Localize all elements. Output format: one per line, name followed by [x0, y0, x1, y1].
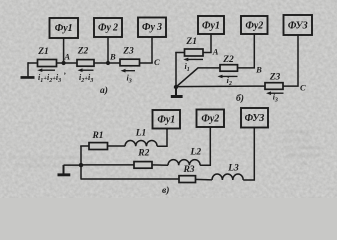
- current arrow i2 (b): [218, 75, 238, 79]
- node junction dot (b): [174, 85, 178, 89]
- wire L2 to FU2 (v): [200, 127, 210, 165]
- svg-text:A: A: [212, 47, 219, 57]
- impedance Z2 (a): [77, 60, 94, 67]
- ground (a): [21, 76, 35, 79]
- svg-text:C: C: [300, 83, 306, 93]
- wire L3 to FU3 (v): [243, 128, 254, 181]
- functional unit FU1 (v): [153, 110, 181, 129]
- wire bus segment B-Z3: [94, 62, 120, 64]
- svg-text:L3: L3: [227, 164, 239, 174]
- svg-text:Фу 3: Фу 3: [142, 22, 162, 33]
- svg-text:Фу1: Фу1: [157, 115, 175, 126]
- svg-text:Z2: Z2: [222, 55, 234, 65]
- impedance Z3 (a): [120, 59, 140, 66]
- bleed-through text right: [283, 128, 320, 167]
- wire Z3 to C corner (b): [283, 35, 298, 86]
- inductor L2: [168, 160, 200, 166]
- wire R3 to L3: [196, 178, 213, 181]
- functional unit FU1 (a): [50, 18, 79, 38]
- svg-text:вм: вм: [300, 160, 307, 167]
- svg-text:Фу2: Фу2: [201, 114, 219, 125]
- svg-text:ноя ыб вёам: ноя ыб вёам: [286, 152, 319, 159]
- functional unit FU2 (b): [241, 16, 268, 34]
- wire left drop to ground (a): [27, 62, 29, 76]
- functional unit FU1 (b): [198, 16, 224, 34]
- functional unit FU3 (b): [284, 15, 313, 35]
- wire bus segment A-B left: [57, 62, 78, 64]
- ground (b): [171, 87, 183, 98]
- svg-text:ФУЗ: ФУЗ: [245, 113, 265, 124]
- svg-text:R2: R2: [137, 149, 149, 159]
- wire branch1 left (v): [80, 145, 89, 147]
- current arrow i1 (b): [183, 58, 203, 62]
- svg-text:б): б): [236, 93, 244, 104]
- inductor L1: [125, 140, 157, 146]
- wire R1 to L1: [108, 145, 126, 147]
- node B junction dot: [106, 61, 110, 65]
- current arrow i2+i3: [78, 68, 94, 72]
- wire diagonal feeder to Z2 (b): [176, 68, 220, 87]
- wire bus segment Z3-C: [140, 62, 153, 64]
- svg-text:Z1: Z1: [185, 37, 197, 47]
- svg-text:L1: L1: [135, 129, 147, 139]
- current arrow i1+i2+i3: [37, 68, 55, 72]
- svg-text:ФУЗ: ФУЗ: [288, 21, 308, 32]
- svg-text:Фу1: Фу1: [55, 23, 73, 34]
- resistor R1: [89, 143, 108, 150]
- functional unit FU2 (v): [197, 110, 225, 128]
- svg-text:B: B: [255, 65, 262, 75]
- wire left vertical (v): [80, 146, 82, 180]
- functional unit FU3 (v): [241, 108, 268, 128]
- svg-text:A: A: [63, 52, 70, 62]
- current arrow i3 (b): [266, 91, 284, 95]
- wire branch3 left (v): [81, 178, 179, 180]
- svg-text:Z3: Z3: [269, 73, 281, 83]
- svg-text:R1: R1: [91, 131, 103, 141]
- ground (v): [58, 165, 82, 176]
- wire left vertical feeder (b): [175, 53, 177, 88]
- wire branch2 left (v): [81, 164, 134, 166]
- svg-text:Z1: Z1: [37, 47, 49, 57]
- bleed-through text left: [8, 154, 92, 169]
- node junction dot (v): [79, 163, 83, 167]
- wire FU1 (v) stub: [166, 129, 168, 131]
- wire R2 to L2: [152, 164, 168, 166]
- svg-text:в): в): [162, 185, 169, 196]
- svg-text:ние до черного приор на узме: ние до черного приор на узме: [8, 154, 90, 161]
- svg-text:Фу1: Фу1: [202, 21, 220, 32]
- wire bottom feeder to Z3 (b): [176, 85, 265, 88]
- wire FU3 (a) drop: [151, 37, 153, 63]
- resistor R2: [134, 162, 152, 169]
- svg-text:а): а): [100, 85, 108, 96]
- wire Z1 to A corner (b): [203, 34, 211, 53]
- svg-text:Z2: Z2: [77, 47, 89, 57]
- current arrow i3 (a): [121, 69, 136, 73]
- wire to Z1 (b): [175, 52, 184, 54]
- impedance Z2 (b): [220, 65, 238, 72]
- svg-text:вдت ыняемц: вдت ыняемц: [284, 144, 320, 151]
- resistor R3: [179, 176, 196, 183]
- svg-text:Фу 2: Фу 2: [98, 23, 118, 34]
- inductor L3: [212, 174, 243, 180]
- wire bus A left segment: [28, 62, 38, 64]
- impedance Z3 (b): [265, 83, 283, 90]
- wire Z2 to B corner (b): [238, 34, 255, 68]
- svg-text:B: B: [109, 52, 116, 62]
- svg-text:R3: R3: [182, 165, 194, 175]
- wire FU2 (a) drop: [107, 37, 109, 63]
- node A junction dot: [62, 61, 66, 65]
- svg-text:C: C: [154, 57, 160, 67]
- functional unit FU3 (a): [138, 18, 166, 38]
- wire L1 to FU1 (v): [157, 129, 167, 147]
- svg-text:L2: L2: [190, 148, 202, 158]
- impedance Z1 (b): [185, 49, 204, 56]
- impedance Z1 (a): [38, 60, 57, 67]
- svg-text:яина яووп: яина яووп: [285, 128, 313, 135]
- svg-text:Фу2: Фу2: [245, 21, 263, 32]
- functional unit FU2 (a): [94, 18, 122, 37]
- svg-text:ате ежов с: ате ежов с: [283, 136, 311, 143]
- svg-text:Z3: Z3: [122, 47, 134, 57]
- wire FU1 (a) drop: [63, 38, 65, 63]
